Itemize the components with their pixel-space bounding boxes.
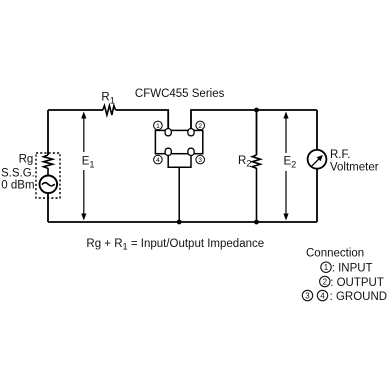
svg-text:: INPUT: : INPUT [332, 263, 373, 275]
svg-text:Rg: Rg [19, 153, 34, 165]
svg-text:1: 1 [156, 123, 160, 130]
svg-text:4: 4 [320, 291, 325, 300]
svg-text:Voltmeter: Voltmeter [330, 162, 379, 174]
svg-text:: GROUND: : GROUND [330, 291, 388, 303]
svg-text:R.F.: R.F. [330, 149, 350, 161]
svg-text:2: 2 [323, 277, 328, 286]
svg-text:0 dBm: 0 dBm [1, 180, 34, 192]
svg-text:S.S.G.: S.S.G. [1, 167, 35, 179]
svg-text:: OUTPUT: : OUTPUT [330, 277, 384, 289]
svg-text:2: 2 [198, 123, 202, 130]
svg-text:Rg + R1 = Input/Output Impedan: Rg + R1 = Input/Output Impedance [86, 238, 264, 252]
svg-text:CFWC455 Series: CFWC455 Series [135, 88, 225, 100]
svg-text:1: 1 [324, 263, 329, 272]
svg-text:3: 3 [198, 157, 202, 164]
svg-text:4: 4 [156, 157, 160, 164]
svg-text:Connection: Connection [306, 247, 364, 259]
svg-text:3: 3 [305, 291, 310, 300]
